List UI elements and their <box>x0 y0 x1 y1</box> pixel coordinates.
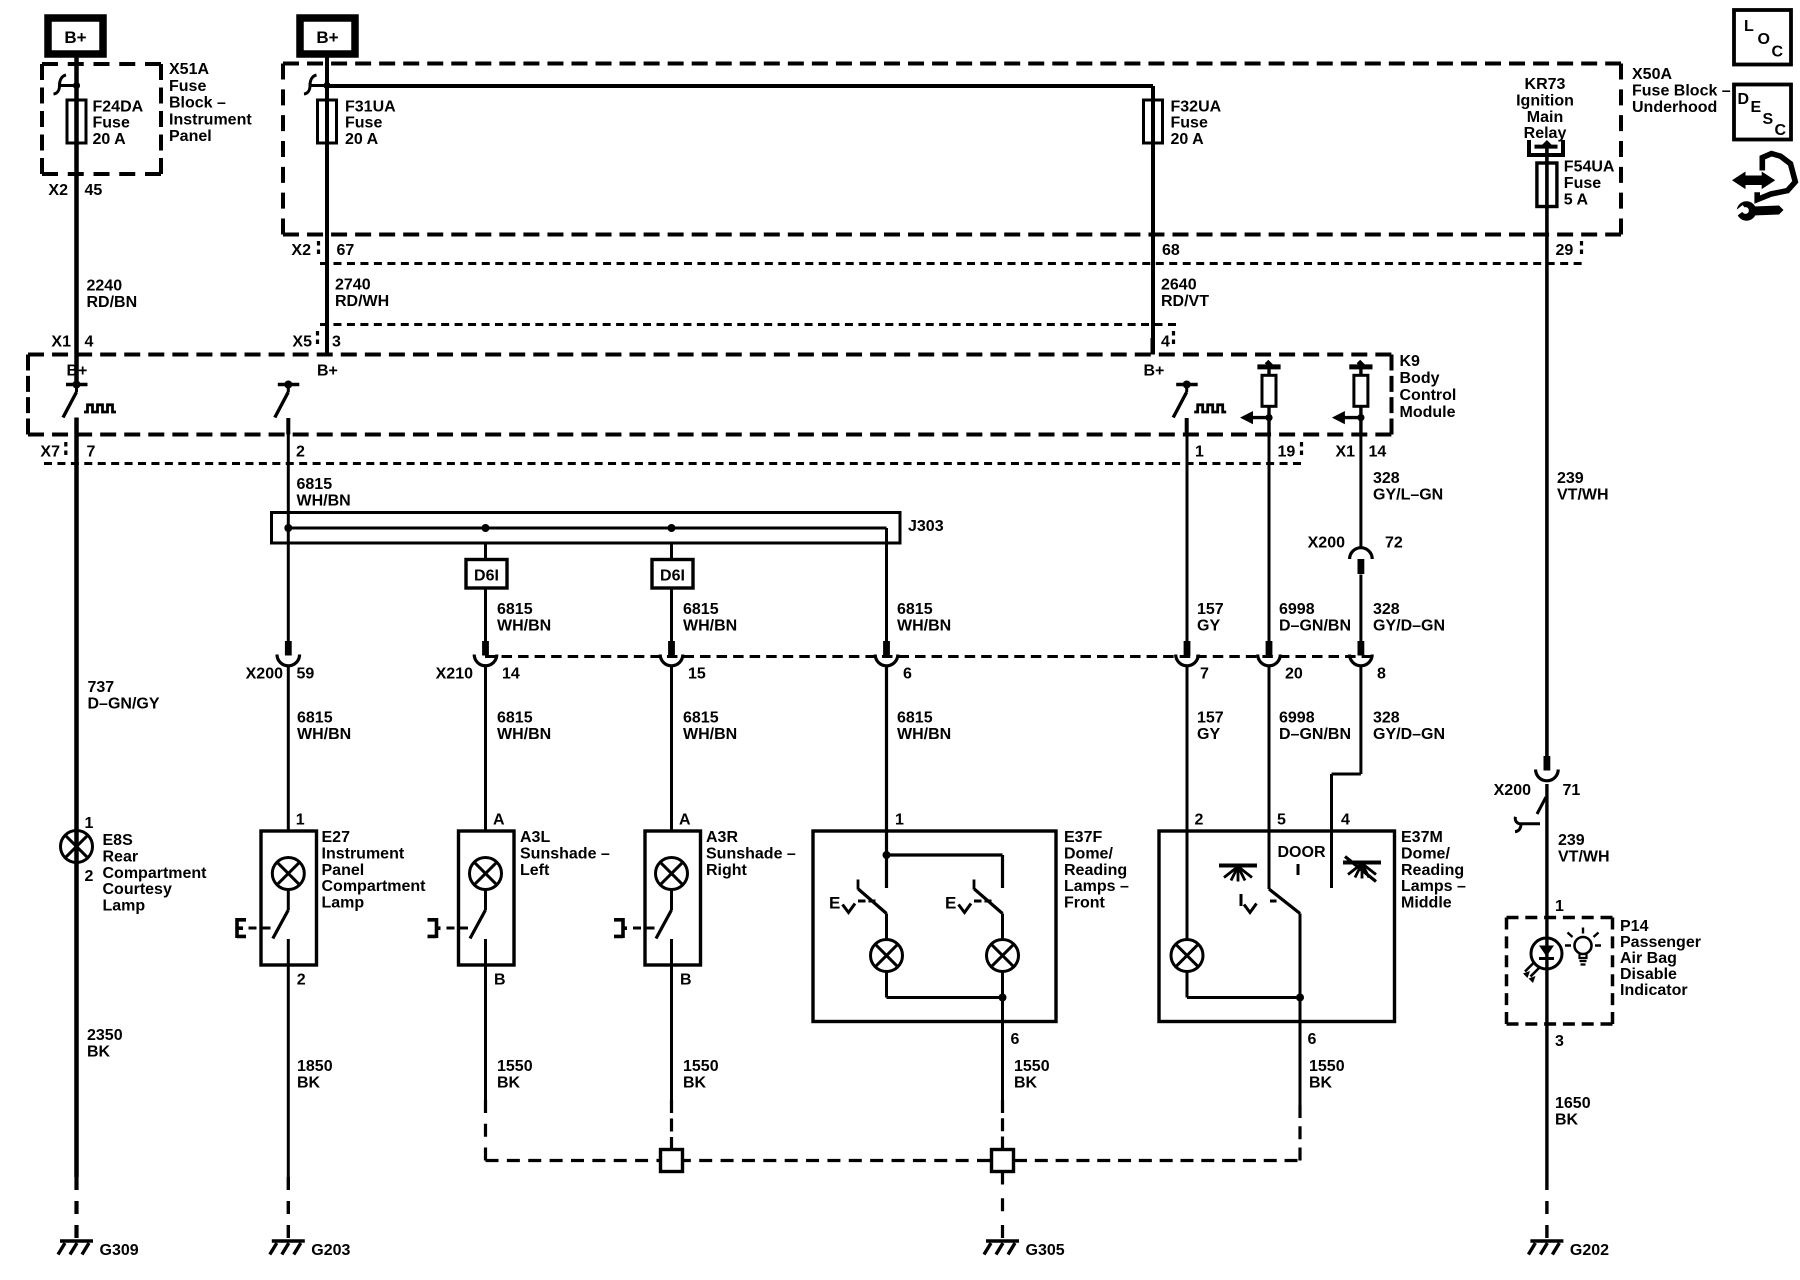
svg-text:328: 328 <box>1373 470 1400 487</box>
svg-text:71: 71 <box>1563 782 1581 799</box>
svg-text:328: 328 <box>1373 601 1400 618</box>
svg-text:4: 4 <box>85 334 94 351</box>
svg-text:Lamps –: Lamps – <box>1064 878 1129 895</box>
svg-text:67: 67 <box>337 242 355 259</box>
svg-text:F24DA: F24DA <box>93 98 144 115</box>
svg-text:D–GN/GY: D–GN/GY <box>88 695 160 712</box>
svg-text:B+: B+ <box>317 363 338 380</box>
svg-text:6815: 6815 <box>497 710 533 727</box>
svg-text:Control: Control <box>1400 387 1457 404</box>
svg-text:X210: X210 <box>436 666 473 683</box>
svg-text:4: 4 <box>1341 812 1350 829</box>
svg-text:Indicator: Indicator <box>1620 982 1688 999</box>
svg-text:B: B <box>494 972 506 989</box>
svg-text:1: 1 <box>895 812 904 829</box>
svg-text:X51A: X51A <box>169 61 209 78</box>
svg-text:C: C <box>1775 122 1787 139</box>
svg-text:BK: BK <box>1309 1074 1333 1091</box>
svg-text:2640: 2640 <box>1161 277 1197 294</box>
svg-text:Front: Front <box>1064 895 1106 912</box>
svg-text:GY/D–GN: GY/D–GN <box>1373 726 1445 743</box>
svg-text:239: 239 <box>1557 470 1584 487</box>
svg-text:Fuse: Fuse <box>169 78 206 95</box>
svg-text:RD/WH: RD/WH <box>335 293 389 310</box>
svg-text:X50A: X50A <box>1632 66 1672 83</box>
svg-text:6: 6 <box>903 666 912 683</box>
svg-text:S: S <box>1763 111 1774 128</box>
svg-text:2350: 2350 <box>87 1027 123 1044</box>
svg-text:GY/D–GN: GY/D–GN <box>1373 617 1445 634</box>
svg-text:X2: X2 <box>291 242 311 259</box>
svg-text:Lamps –: Lamps – <box>1401 878 1466 895</box>
svg-text:A: A <box>679 812 691 829</box>
svg-text:WH/BN: WH/BN <box>297 492 351 509</box>
svg-text:Panel: Panel <box>322 862 365 879</box>
svg-text:GY: GY <box>1197 726 1220 743</box>
svg-text:BK: BK <box>297 1074 321 1091</box>
svg-text:1: 1 <box>296 812 305 829</box>
svg-text:Underhood: Underhood <box>1632 99 1717 116</box>
svg-text:1850: 1850 <box>297 1058 333 1075</box>
svg-text:D: D <box>1738 91 1750 108</box>
svg-text:GY/L–GN: GY/L–GN <box>1373 486 1443 503</box>
svg-text:G203: G203 <box>311 1242 350 1259</box>
svg-text:Fuse: Fuse <box>345 115 382 132</box>
svg-text:7: 7 <box>1200 666 1209 683</box>
svg-text:Lamp: Lamp <box>322 895 365 912</box>
svg-text:6815: 6815 <box>297 476 333 493</box>
svg-text:Compartment: Compartment <box>103 865 208 882</box>
svg-text:6815: 6815 <box>683 601 719 618</box>
svg-text:Passenger: Passenger <box>1620 934 1701 951</box>
svg-text:1550: 1550 <box>497 1058 533 1075</box>
svg-text:2740: 2740 <box>335 277 371 294</box>
svg-text:X200: X200 <box>1308 535 1345 552</box>
svg-text:68: 68 <box>1162 242 1180 259</box>
svg-text:D6I: D6I <box>660 568 685 585</box>
svg-text:VT/WH: VT/WH <box>1557 486 1609 503</box>
svg-text:B+: B+ <box>316 28 338 47</box>
svg-text:X7: X7 <box>40 444 60 461</box>
svg-text:15: 15 <box>688 666 706 683</box>
svg-text:2: 2 <box>296 444 305 461</box>
svg-text:VT/WH: VT/WH <box>1558 848 1610 865</box>
svg-text:X5: X5 <box>292 334 312 351</box>
svg-text:G202: G202 <box>1570 1242 1609 1259</box>
svg-text:4: 4 <box>1161 334 1170 351</box>
svg-text:Instrument: Instrument <box>322 845 405 862</box>
svg-text:B+: B+ <box>1144 363 1165 380</box>
svg-text:20 A: 20 A <box>345 131 379 148</box>
svg-text:Dome/: Dome/ <box>1064 845 1113 862</box>
svg-text:20 A: 20 A <box>93 131 127 148</box>
svg-text:Reading: Reading <box>1401 862 1464 879</box>
svg-text:Panel: Panel <box>169 128 212 145</box>
svg-text:F32UA: F32UA <box>1171 98 1222 115</box>
svg-text:Body: Body <box>1400 370 1440 387</box>
svg-text:8: 8 <box>1377 666 1386 683</box>
svg-text:WH/BN: WH/BN <box>297 726 351 743</box>
svg-text:Dome/: Dome/ <box>1401 845 1450 862</box>
svg-text:BK: BK <box>1014 1074 1038 1091</box>
svg-text:2240: 2240 <box>87 278 123 295</box>
svg-text:20 A: 20 A <box>1171 131 1205 148</box>
svg-text:F54UA: F54UA <box>1564 159 1615 176</box>
svg-text:WH/BN: WH/BN <box>683 726 737 743</box>
svg-text:DOOR: DOOR <box>1278 844 1326 861</box>
svg-text:X1: X1 <box>51 334 71 351</box>
svg-text:19: 19 <box>1278 444 1296 461</box>
svg-text:3: 3 <box>332 334 341 351</box>
svg-text:5 A: 5 A <box>1564 191 1589 208</box>
svg-text:Ignition: Ignition <box>1516 92 1574 109</box>
svg-text:E: E <box>1751 99 1762 116</box>
svg-text:Block –: Block – <box>169 95 226 112</box>
svg-text:20: 20 <box>1285 666 1303 683</box>
svg-text:6: 6 <box>1308 1031 1317 1048</box>
svg-text:5: 5 <box>1277 812 1286 829</box>
svg-text:Fuse Block –: Fuse Block – <box>1632 82 1731 99</box>
svg-text:59: 59 <box>297 666 315 683</box>
svg-text:GY: GY <box>1197 617 1220 634</box>
svg-text:K9: K9 <box>1400 353 1421 370</box>
svg-text:RD/VT: RD/VT <box>1161 293 1209 310</box>
svg-text:Disable: Disable <box>1620 966 1677 983</box>
svg-text:Reading: Reading <box>1064 862 1127 879</box>
svg-text:1550: 1550 <box>683 1058 719 1075</box>
svg-text:C: C <box>1772 44 1784 61</box>
svg-text:Right: Right <box>706 862 748 879</box>
svg-text:BK: BK <box>87 1043 111 1060</box>
svg-text:1550: 1550 <box>1309 1058 1345 1075</box>
svg-text:7: 7 <box>87 444 96 461</box>
svg-text:29: 29 <box>1556 242 1574 259</box>
svg-text:6815: 6815 <box>297 710 333 727</box>
svg-text:WH/BN: WH/BN <box>497 726 551 743</box>
svg-text:239: 239 <box>1558 832 1585 849</box>
svg-text:Instrument: Instrument <box>169 111 252 128</box>
svg-text:BK: BK <box>683 1074 707 1091</box>
svg-text:WH/BN: WH/BN <box>897 726 951 743</box>
svg-text:6998: 6998 <box>1279 601 1315 618</box>
svg-text:6815: 6815 <box>897 601 933 618</box>
svg-text:6815: 6815 <box>897 710 933 727</box>
svg-text:157: 157 <box>1197 601 1224 618</box>
svg-text:1650: 1650 <box>1555 1095 1591 1112</box>
svg-text:Fuse: Fuse <box>1564 175 1601 192</box>
svg-text:1: 1 <box>85 815 94 832</box>
svg-text:B: B <box>680 972 692 989</box>
svg-text:KR73: KR73 <box>1525 76 1566 93</box>
svg-text:Left: Left <box>520 862 550 879</box>
svg-text:737: 737 <box>88 679 115 696</box>
svg-text:A3R: A3R <box>706 829 738 846</box>
svg-text:X200: X200 <box>1494 782 1531 799</box>
svg-text:Main: Main <box>1527 109 1563 126</box>
svg-text:Sunshade –: Sunshade – <box>706 845 796 862</box>
svg-text:Module: Module <box>1400 404 1456 421</box>
svg-text:328: 328 <box>1373 710 1400 727</box>
svg-text:G305: G305 <box>1026 1242 1065 1259</box>
svg-text:72: 72 <box>1385 535 1403 552</box>
svg-text:WH/BN: WH/BN <box>683 617 737 634</box>
svg-text:E37F: E37F <box>1064 829 1102 846</box>
svg-text:Relay: Relay <box>1524 125 1567 142</box>
svg-text:RD/BN: RD/BN <box>87 294 138 311</box>
svg-text:Fuse: Fuse <box>93 115 130 132</box>
svg-text:L: L <box>1744 18 1754 35</box>
svg-text:6815: 6815 <box>497 601 533 618</box>
svg-text:D–GN/BN: D–GN/BN <box>1279 617 1351 634</box>
svg-text:45: 45 <box>85 182 103 199</box>
svg-text:D6I: D6I <box>474 568 499 585</box>
svg-text:2: 2 <box>85 868 94 885</box>
svg-text:14: 14 <box>1369 444 1387 461</box>
svg-text:157: 157 <box>1197 710 1224 727</box>
svg-text:O: O <box>1758 31 1770 48</box>
svg-text:6998: 6998 <box>1279 710 1315 727</box>
svg-text:6815: 6815 <box>683 710 719 727</box>
svg-text:2: 2 <box>1195 812 1204 829</box>
svg-text:P14: P14 <box>1620 918 1649 935</box>
svg-text:X1: X1 <box>1336 444 1356 461</box>
svg-text:2: 2 <box>297 972 306 989</box>
svg-text:Air Bag: Air Bag <box>1620 950 1677 967</box>
svg-text:Rear: Rear <box>103 848 139 865</box>
svg-text:F31UA: F31UA <box>345 98 396 115</box>
svg-text:A3L: A3L <box>520 829 550 846</box>
svg-text:E27: E27 <box>322 829 351 846</box>
svg-text:Lamp: Lamp <box>103 898 146 915</box>
svg-text:WH/BN: WH/BN <box>897 617 951 634</box>
svg-text:G309: G309 <box>100 1242 139 1259</box>
svg-text:6: 6 <box>1011 1031 1020 1048</box>
svg-text:3: 3 <box>1555 1033 1564 1050</box>
svg-text:E: E <box>829 894 840 913</box>
svg-text:J303: J303 <box>908 518 944 535</box>
svg-text:1: 1 <box>1555 898 1564 915</box>
svg-text:E: E <box>945 894 956 913</box>
svg-text:Middle: Middle <box>1401 895 1452 912</box>
svg-text:BK: BK <box>497 1074 521 1091</box>
svg-text:Sunshade –: Sunshade – <box>520 845 610 862</box>
svg-text:E8S: E8S <box>103 832 134 849</box>
svg-text:1550: 1550 <box>1014 1058 1050 1075</box>
svg-text:B+: B+ <box>64 28 86 47</box>
svg-text:X2: X2 <box>48 182 68 199</box>
svg-text:D–GN/BN: D–GN/BN <box>1279 726 1351 743</box>
svg-text:Courtesy: Courtesy <box>103 881 172 898</box>
svg-text:14: 14 <box>502 666 520 683</box>
svg-text:BK: BK <box>1555 1111 1579 1128</box>
svg-text:1: 1 <box>1195 444 1204 461</box>
svg-text:Fuse: Fuse <box>1171 115 1208 132</box>
svg-text:X200: X200 <box>246 666 283 683</box>
svg-text:A: A <box>493 812 505 829</box>
svg-text:WH/BN: WH/BN <box>497 617 551 634</box>
svg-text:B+: B+ <box>67 363 88 380</box>
svg-text:E37M: E37M <box>1401 829 1443 846</box>
svg-text:Compartment: Compartment <box>322 878 427 895</box>
